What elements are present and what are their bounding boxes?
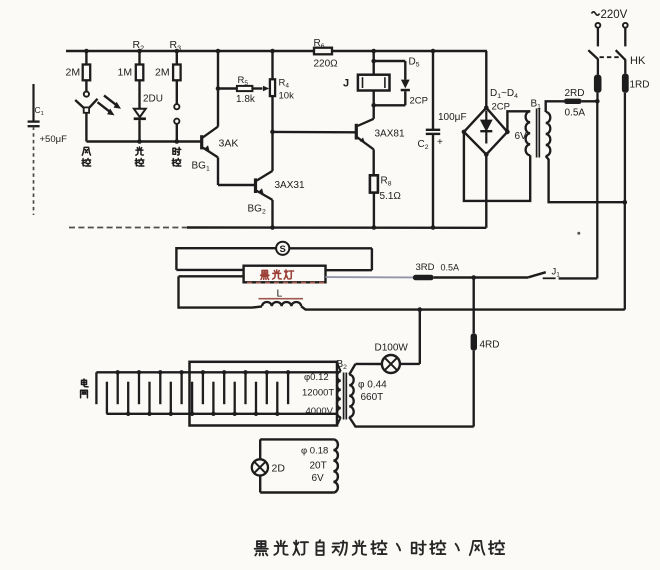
svg-text:0.5A: 0.5A — [565, 108, 586, 119]
svg-text:1M: 1M — [118, 67, 133, 79]
wire relay bottom — [373, 91, 375, 106]
transformer B2 core — [343, 373, 345, 420]
svg-text:1RD: 1RD — [630, 80, 650, 91]
svg-text:L: L — [277, 288, 283, 300]
resistor R3 2M — [176, 51, 178, 65]
wire B1 primary top to fuse 2RD — [546, 101, 564, 112]
resistor R8 5.1ohm — [370, 175, 378, 192]
svg-text:2CP: 2CP — [410, 96, 428, 107]
wire base bus — [86, 140, 200, 142]
label shi-kong (time control) — [173, 147, 181, 155]
fuse on pole 1 — [594, 75, 602, 93]
svg-text:220V: 220V — [601, 9, 628, 21]
wind-control switch (feng-kong) — [84, 92, 89, 97]
wire BG2 emitter — [271, 200, 273, 228]
svg-text:5.1Ω: 5.1Ω — [380, 191, 402, 202]
svg-text:3AK: 3AK — [219, 138, 239, 150]
switch HK pole 1 — [597, 28, 599, 47]
svg-text:2D: 2D — [272, 463, 286, 475]
svg-text:4RD: 4RD — [480, 340, 500, 351]
wire BG2 node to BG3 base — [273, 131, 357, 134]
label feng-kong (wind control) — [82, 147, 90, 155]
svg-text:6V: 6V — [312, 473, 325, 484]
fuse 2RD 0.5A — [564, 99, 582, 104]
light arrows into photodiode — [98, 96, 118, 113]
wire bottom rail (faded left part) — [69, 227, 187, 229]
wire bridge left node loop — [464, 132, 530, 201]
wire BG2 collector — [271, 132, 273, 171]
time-control contacts (shi-kong) — [174, 104, 179, 109]
node top rail / R3 branch — [175, 49, 180, 54]
svg-text:J: J — [343, 78, 349, 90]
wire bridge bottom to rail — [485, 155, 487, 228]
wire BG1 emitter to BG2 base — [217, 157, 219, 185]
wire D100W to B2 primary top — [349, 364, 355, 375]
wire B2 primary bottom — [349, 417, 474, 427]
node BG2 collector / R4 / BG3 base — [270, 130, 275, 135]
svg-text:2DU: 2DU — [143, 94, 163, 105]
transistor BG3 3AX81 — [355, 124, 358, 140]
transformer B1 secondary 6V winding — [526, 111, 531, 155]
svg-text:2RD: 2RD — [565, 88, 585, 99]
svg-text:660T: 660T — [361, 392, 384, 403]
node top rail / R2 branch — [137, 49, 142, 54]
label guang-kong (light control) — [136, 147, 144, 155]
wire lamp lower-left pin — [179, 275, 244, 277]
label dian-wang (electric net) — [81, 379, 88, 387]
capacitor C2 100uF — [431, 49, 436, 54]
resistor R5 1.8k — [218, 87, 237, 89]
wire bottom rail — [187, 226, 486, 229]
fuse 1RD — [622, 74, 629, 93]
svg-text:D1~D4: D1~D4 — [490, 88, 518, 100]
transformer B2 secondary 12000T winding — [337, 363, 341, 426]
node top rail / R1 branch — [84, 49, 89, 54]
wire pole2 down — [624, 93, 626, 202]
wire B1 primary bottom — [546, 156, 625, 202]
resistor R4 10k (pot) — [271, 51, 273, 79]
black-light lamp tube (hei-guang-deng) — [244, 266, 326, 283]
svg-text:2M: 2M — [66, 67, 81, 79]
node lamp line / D100W branch — [418, 307, 423, 312]
resistor R6 220ohm — [314, 48, 332, 55]
resistor R2 1M — [138, 51, 140, 65]
svg-text:0.5A: 0.5A — [441, 263, 460, 273]
switch HK gang link — [600, 56, 621, 58]
transformer B2 primary 660T winding — [349, 375, 354, 417]
svg-text:12000T: 12000T — [302, 388, 334, 399]
svg-text:20T: 20T — [310, 461, 327, 472]
wire lamp lower-right pin (faded) — [326, 276, 414, 278]
svg-text:10k: 10k — [279, 91, 295, 102]
svg-text:HK: HK — [630, 55, 646, 67]
svg-text:4000V: 4000V — [306, 406, 334, 417]
svg-text:S: S — [280, 244, 286, 255]
wire top supply rail — [66, 50, 487, 53]
relay coil J — [358, 75, 390, 91]
wire rail to bridge — [485, 51, 487, 108]
svg-text:D100W: D100W — [375, 343, 409, 354]
ballast L coil — [262, 302, 301, 306]
svg-text:2M: 2M — [155, 67, 170, 79]
svg-text:φ0.12: φ0.12 — [304, 372, 329, 383]
starter S loop — [176, 248, 276, 270]
svg-text:+: + — [437, 137, 443, 148]
transistor BG2 3AX31 — [254, 178, 257, 193]
bridge rectifier D1~D4 2CP — [464, 108, 508, 155]
wire lamp upper pins — [176, 269, 243, 271]
transformer B1 primary winding — [546, 112, 551, 156]
wire bridge right node to B1 6V winding — [507, 111, 530, 132]
photodiode 2DU — [134, 109, 146, 117]
caption: black-light lamp auto light/time/wind control — [255, 541, 268, 555]
electric-net enclosure box — [190, 362, 338, 426]
svg-text:φ 0.44: φ 0.44 — [358, 380, 387, 391]
svg-text:1.8k: 1.8k — [236, 94, 256, 105]
svg-text:3AX81: 3AX81 — [375, 129, 405, 140]
switch HK pole 2 — [624, 28, 626, 47]
wire BG1 collector — [217, 51, 219, 127]
wire pole1 down to J1 contact — [596, 93, 598, 101]
relay contact J1 — [474, 276, 529, 278]
diode D5 2CP — [374, 60, 406, 62]
transformer B2 filament winding 20T 6V — [260, 438, 333, 440]
svg-text:220Ω: 220Ω — [314, 59, 339, 70]
transistor BG1 3AK — [200, 135, 203, 149]
scan speck — [577, 232, 580, 235]
lamp D100W — [419, 310, 421, 364]
svg-text:+50μF: +50μF — [40, 134, 68, 145]
node 3RD junction to 4RD — [473, 278, 475, 334]
electric net grid electrodes — [96, 371, 336, 373]
indicator lamp 2D — [252, 459, 268, 475]
wire BG3 emitter — [373, 149, 375, 175]
resistor R1 2M — [85, 51, 87, 65]
wire relay branch — [373, 51, 375, 75]
svg-text:100μF: 100μF — [438, 112, 467, 123]
svg-text:φ 0.18: φ 0.18 — [301, 446, 328, 457]
transformer B1 core — [536, 109, 538, 158]
AC supply terminals ~220V — [596, 23, 601, 28]
fuse 4RD — [471, 333, 477, 351]
capacitor C1 50uF — [32, 84, 34, 121]
wire lamp bottom line — [179, 306, 625, 309]
node top rail / relay branch — [371, 49, 376, 54]
fuse 3RD 0.5A — [413, 275, 434, 281]
svg-text:3AX31: 3AX31 — [275, 180, 305, 191]
svg-text:3RD: 3RD — [416, 262, 435, 273]
node BG1 collector / R5 — [216, 86, 221, 91]
